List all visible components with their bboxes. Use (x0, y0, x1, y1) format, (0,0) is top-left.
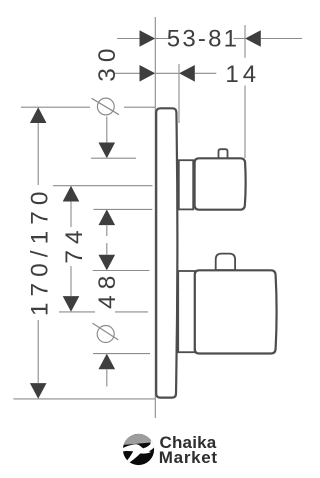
extension line lower knob bottom (93, 353, 150, 355)
logo seagull right wing (142, 440, 155, 453)
node lower handle stem (178, 271, 195, 352)
dimension 48 down arrow (99, 255, 116, 271)
dimension 74 top extension line upper handle centerline (53, 185, 153, 187)
dimension 14 left tail (114, 72, 141, 74)
node lower handle knob (195, 270, 277, 353)
dimension 74 bottom extension line lower handle centerline right segment (115, 311, 148, 313)
dimension 170/170 bottom arrow (30, 383, 47, 399)
dimension 30 up arrow (99, 209, 116, 225)
dimension 14 right arrow (179, 65, 195, 82)
svg-text:170/170: 170/170 (27, 186, 54, 317)
dimension 170/170 top arrow (30, 107, 47, 123)
dimension diameter-48 symbol slash (92, 323, 118, 340)
dimension 170/170 line lower segment (37, 320, 39, 383)
node plate (escutcheon side view) (156, 108, 177, 397)
extension line upper knob top (91, 157, 136, 159)
dimension 53-81 line segment text to ext (234, 38, 246, 40)
logo seagull body left wing and tail (123, 444, 151, 462)
svg-text:14: 14 (225, 61, 260, 88)
dimension diameter-30 diameter symbol circle (97, 98, 114, 115)
dimension diameter-30 diameter symbol slash (92, 98, 119, 114)
dimension 74 line upper segment (70, 202, 72, 228)
dimension 14 line segment between extension lines (155, 72, 179, 74)
dimension 53-81 right tail (261, 38, 302, 40)
dimension 14 right tail (195, 72, 217, 74)
wire wall line (154, 17, 156, 418)
dimension 53-81 right arrow (245, 30, 261, 47)
extension line knob front x=244.5 upper segment (244, 25, 246, 58)
svg-text:Market: Market (159, 448, 218, 467)
dimension 74 down arrow (63, 296, 80, 312)
svg-text:30: 30 (94, 42, 121, 81)
dimension 53-81 leader left tail (117, 38, 140, 40)
extension line plate top right segment (124, 106, 155, 108)
extension line plate top left segment (21, 106, 90, 108)
dimension diameter-48 symbol circle (97, 326, 114, 343)
dimension 48 up arrow (99, 354, 116, 370)
dimension 53-81 left arrow (140, 30, 156, 47)
dimension 48 lower tail (106, 369, 108, 386)
dimension 74 line lower segment (70, 266, 72, 296)
node upper handle knob (195, 158, 246, 209)
dimension 74 bottom extension line lower handle centerline left segment (59, 311, 95, 313)
svg-text:53-81: 53-81 (167, 25, 239, 52)
node upper handle stem (179, 160, 193, 209)
logo circle (123, 434, 154, 465)
svg-text:48: 48 (94, 270, 121, 309)
logo gray dome (124, 434, 153, 445)
extension line plate front x=179 (178, 64, 180, 123)
extension line lower knob top (93, 270, 150, 272)
dimension 53-81 line segment wall to text (155, 38, 171, 40)
extension line plate bottom (14, 398, 156, 400)
extension line upper knob bottom (94, 208, 153, 210)
node upper handle tab (219, 149, 228, 158)
dimension 74 up arrow (63, 186, 80, 202)
dimension 170/170 line upper segment (37, 123, 39, 185)
dimension 30 down arrow (99, 143, 116, 159)
svg-text:74: 74 (61, 224, 88, 263)
node lower handle tab (216, 254, 235, 271)
dimension 14 left arrow (140, 65, 156, 82)
extension line knob front x=244.5 lower segment (244, 86, 246, 159)
dimension 30 line below symbol (106, 117, 108, 145)
shared tail between 30 and 48 dimensions (106, 225, 108, 236)
